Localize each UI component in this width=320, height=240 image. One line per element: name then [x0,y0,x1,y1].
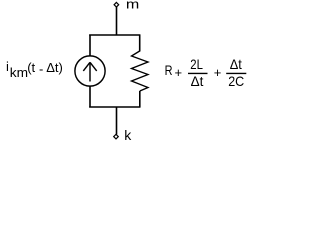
wire: resistor down to bottom rail [139,91,141,108]
svg-text:i: i [6,59,9,74]
svg-text:km: km [10,66,28,80]
svg-text:+: + [175,65,183,80]
svg-text:+: + [214,65,222,80]
wire: top rail [89,34,140,36]
label i_km(t - delta t): current source value [6,59,63,80]
node k (diamond terminal) [114,134,119,139]
wire: top rail down to resistor [139,35,141,52]
fraction 1 bar [188,72,208,74]
resistor R (zigzag) [132,51,149,91]
label R + 2L/dt + dt/2C: branch impedance formula [165,57,247,89]
fraction 2 bar [226,72,246,74]
svg-text:k: k [124,127,132,143]
wire: top rail down to current source [89,35,91,56]
wire: node m down to top rail [116,7,118,35]
node m (diamond terminal) [114,2,119,7]
svg-text:Δt: Δt [191,74,204,89]
svg-text:(t: (t [27,60,35,75]
wire: bottom rail [89,106,140,108]
svg-text:Δt): Δt) [46,60,63,75]
current source I_km (circle with up arrow) [75,56,105,86]
svg-text:2C: 2C [228,73,244,89]
svg-text:m: m [126,0,139,12]
svg-text:2L: 2L [190,57,203,72]
wire: bottom rail down to node k [116,107,118,134]
svg-text:-: - [39,62,43,77]
svg-text:R: R [165,63,173,79]
wire: current source down to bottom rail [89,86,91,107]
svg-text:Δt: Δt [230,57,242,72]
